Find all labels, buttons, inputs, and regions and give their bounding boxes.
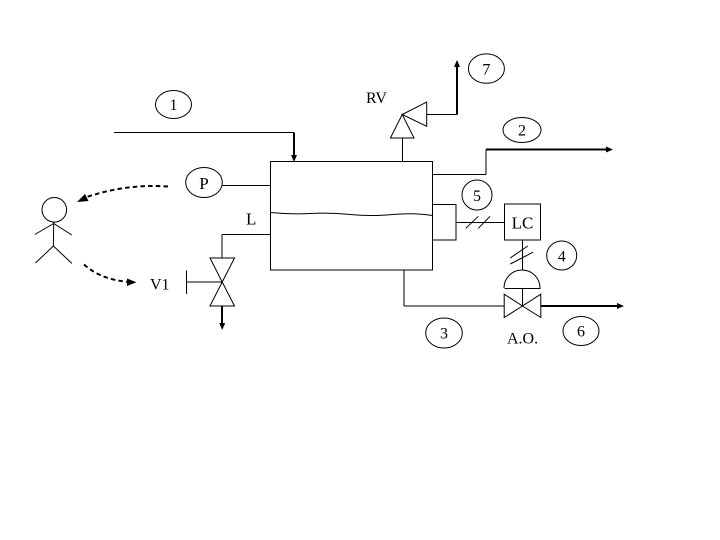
stream label 7 [468,54,504,83]
wire drain from vessel left [222,234,271,236]
wire inlet line horizontal [114,132,294,134]
liquid level line [271,213,433,216]
pressure indicator P [186,168,223,198]
operator stick figure [35,198,72,264]
svg-text:P: P [199,174,208,193]
relief valve RV [390,102,426,138]
control valve actuator dome [504,270,541,306]
wire level signal to LC [456,222,505,224]
level nozzle box [433,205,457,241]
wire bottom line to valve [404,305,504,307]
dashed arrow operator to V1 [84,265,137,287]
wire P tap [222,185,270,187]
wire outlet riser [485,150,487,175]
stream label 5 [462,180,492,210]
svg-text:1: 1 [170,97,178,114]
svg-text:RV: RV [366,90,387,107]
wire RV vent riser with arrow [454,60,460,115]
dashed arrow operator to P [77,186,168,202]
wire drain drop to valve V1 [221,235,223,259]
svg-text:2: 2 [518,123,526,140]
svg-text:L: L [246,210,256,229]
svg-text:4: 4 [558,249,566,266]
wire RV outlet horizontal [427,114,457,116]
svg-text:7: 7 [482,62,490,79]
wire V1 outlet arrow down [219,306,225,330]
wire vessel bottom drop [403,270,405,306]
stream label 1 [156,91,192,119]
stream label 3 [426,318,463,348]
valve V1 [210,258,235,306]
stream label 4 [547,241,577,270]
level controller LC [505,204,541,240]
wire vapour outlet from vessel [433,174,487,176]
wire RV stem to vessel [402,138,404,162]
stream label 2 [503,118,541,143]
svg-text:6: 6 [577,324,585,341]
svg-text:LC: LC [512,214,534,233]
vessel V-100 drum [271,162,433,271]
svg-text:3: 3 [440,326,448,343]
svg-text:V1: V1 [150,277,170,294]
wire LC signal to valve [522,240,524,270]
stream label 6 [563,317,599,346]
wire valve outlet with arrow [541,303,624,309]
wire inlet drop with arrow into vessel [291,133,297,163]
wire V1 stem tee [187,271,223,295]
signal slashes horizontal [466,216,490,228]
signal slashes vertical [510,246,533,264]
control valve body [504,294,541,317]
wire outlet line with arrow [486,147,613,153]
svg-text:A.O.: A.O. [507,331,538,348]
svg-text:5: 5 [473,188,481,205]
